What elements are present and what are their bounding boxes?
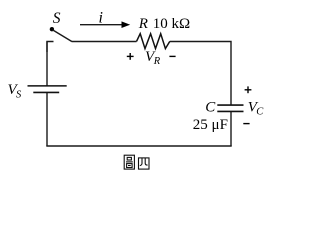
label + (capacitor top polarity)	[245, 86, 252, 93]
wire left lower (battery to bottom)	[46, 93, 48, 146]
svg-text:S: S	[16, 90, 22, 101]
label VS	[8, 82, 23, 101]
wire right lower (capacitor to bottom)	[230, 112, 232, 147]
svg-text:R: R	[153, 56, 161, 67]
wire top left stub	[47, 42, 54, 53]
wire bottom	[46, 145, 231, 147]
current arrow i	[80, 10, 130, 29]
capacitor C	[217, 105, 243, 111]
label VC	[248, 100, 265, 118]
label + VR - (resistor polarity)	[127, 49, 176, 67]
svg-text:10 kΩ: 10 kΩ	[153, 16, 190, 32]
svg-text:i: i	[99, 10, 103, 27]
battery source VS	[28, 86, 67, 93]
caption glyph 圖 (figure)	[124, 155, 134, 169]
svg-text:S: S	[53, 10, 61, 27]
svg-text:R: R	[138, 16, 148, 32]
wire left upper (stub to battery)	[46, 42, 48, 86]
svg-text:25 μF: 25 μF	[193, 117, 228, 133]
caption glyph 四 (four)	[139, 158, 150, 169]
label - (capacitor bottom polarity)	[243, 123, 249, 125]
resistor R	[137, 34, 170, 49]
wire top (switch to resistor)	[72, 41, 137, 43]
svg-text:C: C	[256, 106, 264, 117]
switch S	[50, 10, 72, 41]
wire top (resistor to corner)	[170, 42, 231, 106]
label R 10 kOhm	[138, 16, 191, 32]
svg-text:C: C	[205, 100, 216, 116]
